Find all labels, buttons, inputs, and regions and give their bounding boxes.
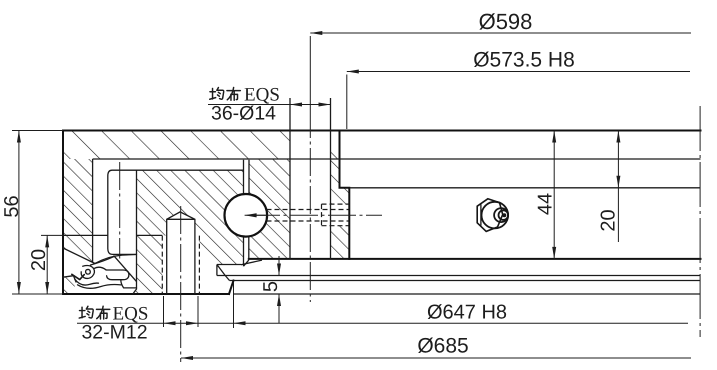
bottom face bbox=[63, 293, 229, 295]
arrowheads bbox=[17, 31, 621, 360]
svg-text:EQS: EQS bbox=[113, 304, 149, 325]
D598 bbox=[310, 33, 691, 110]
20 left bbox=[41, 235, 63, 294]
split line bbox=[63, 234, 162, 236]
seal bottom foot bbox=[121, 280, 137, 288]
mid block (outer ring halves around M12) bbox=[133, 170, 244, 294]
lower lip slot bbox=[106, 270, 129, 280]
svg-text:EQS: EQS bbox=[244, 85, 280, 106]
top plate band (wide hatch = separate part) bbox=[63, 131, 340, 160]
svg-text:56: 56 bbox=[1, 195, 23, 217]
D573.5 bbox=[347, 72, 690, 130]
D685 bbox=[181, 357, 691, 359]
main outlines bbox=[63, 131, 701, 295]
arrow D685 bbox=[181, 356, 193, 360]
lip seal in bottom-left pocket bbox=[63, 248, 137, 288]
svg-text:36-Ø14: 36-Ø14 bbox=[211, 103, 276, 125]
top face bbox=[63, 130, 701, 132]
hole 14 walls bbox=[290, 98, 331, 259]
svg-text:20: 20 bbox=[598, 209, 620, 231]
svg-text:Ø573.5 H8: Ø573.5 H8 bbox=[473, 49, 575, 72]
grease box bbox=[322, 204, 350, 226]
seal top sweep bbox=[95, 255, 137, 264]
arrows 36-D14 bbox=[290, 103, 302, 107]
bottom step chamfer bbox=[229, 281, 234, 295]
wall inner face bbox=[92, 159, 94, 262]
arrows dim 56 bbox=[17, 131, 21, 143]
ring joint line bbox=[93, 158, 701, 160]
arrows 32-M12 bbox=[164, 321, 176, 325]
svg-text:32-M12: 32-M12 bbox=[81, 322, 147, 344]
white cutouts bbox=[162, 129, 349, 294]
side view lines bbox=[234, 293, 701, 295]
arrows dim 5 bbox=[277, 264, 281, 276]
svg-text:20: 20 bbox=[28, 249, 50, 271]
arrows dim 20 left bbox=[45, 235, 49, 247]
gap above ball bbox=[244, 160, 250, 195]
left edge bbox=[62, 131, 64, 295]
stud outline bbox=[167, 212, 195, 294]
M12 tapped hole bbox=[162, 236, 199, 294]
32-M12 leader + dim bbox=[77, 296, 688, 327]
wall lip edges bbox=[63, 276, 76, 282]
bead curl bbox=[81, 265, 94, 278]
44 bbox=[553, 131, 555, 259]
ball bbox=[225, 194, 268, 237]
ball fill bbox=[225, 194, 267, 236]
internal chamfer diagonal bbox=[91, 256, 137, 281]
bolt hole 14 bbox=[290, 129, 331, 260]
gap below ball bbox=[244, 236, 249, 266]
5 bbox=[278, 256, 280, 323]
arrows dim 20 right bbox=[616, 131, 620, 143]
inner ring bottom bbox=[249, 258, 701, 260]
stud bbox=[167, 212, 195, 294]
right column edges bbox=[340, 131, 350, 259]
bead-slot connector bbox=[94, 267, 106, 270]
outer ring wall bbox=[63, 159, 93, 262]
channel inner boundary + plug bbox=[108, 170, 244, 254]
svg-text:44: 44 bbox=[535, 193, 557, 215]
arrow D598 bbox=[310, 31, 322, 35]
svg-text:Ø598: Ø598 bbox=[479, 9, 533, 34]
grease passage leader arrow bbox=[245, 213, 268, 217]
svg-text:Ø685: Ø685 bbox=[417, 335, 468, 358]
inner ring right column bbox=[249, 159, 349, 259]
D647 bbox=[233, 282, 235, 328]
20 right bbox=[617, 131, 619, 243]
36-D14 leader + dim bbox=[208, 104, 331, 106]
pocket top slant bbox=[63, 248, 95, 264]
arrow D647 bbox=[234, 321, 246, 325]
svg-text:Ø647 H8: Ø647 H8 bbox=[427, 302, 507, 324]
svg-text:5: 5 bbox=[260, 281, 282, 292]
wall bottom triangle bbox=[63, 276, 76, 294]
56 bbox=[12, 131, 63, 295]
arrow D573.5 bbox=[347, 70, 359, 74]
hidden (dashed) lines bbox=[162, 204, 349, 294]
centerlines dash-dot bbox=[120, 106, 700, 362]
V notch lip bbox=[72, 274, 85, 279]
grease nipple bbox=[477, 199, 508, 232]
wedge seal bbox=[217, 260, 262, 280]
arrows dim 44 bbox=[552, 131, 556, 143]
bottom curls bbox=[75, 279, 99, 285]
